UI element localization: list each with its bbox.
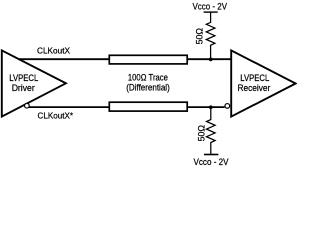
svg-text:LVPECL: LVPECL xyxy=(240,73,269,83)
svg-text:100Ω Trace: 100Ω Trace xyxy=(128,72,168,82)
svg-text:50Ω: 50Ω xyxy=(196,125,206,142)
inversion bubble on driver output xyxy=(25,103,30,108)
svg-text:Vcco - 2V: Vcco - 2V xyxy=(194,157,230,167)
transmission line T1 100 ohm trace (top box) xyxy=(109,55,187,64)
wire CLKoutX* (bottom) xyxy=(27,106,225,108)
svg-text:(Differential): (Differential) xyxy=(126,83,170,93)
op-amp U2 LVPECL Receiver triangle xyxy=(231,50,295,116)
svg-text:Vcco - 2V: Vcco - 2V xyxy=(193,1,228,11)
power terminal Vcco-2V (top) xyxy=(204,11,218,13)
svg-text:LVPECL: LVPECL xyxy=(9,73,38,83)
svg-text:CLKoutX*: CLKoutX* xyxy=(38,110,74,120)
transmission line T2 100 ohm trace (bottom box) xyxy=(109,102,187,111)
resistor R1 50 ohm (top) xyxy=(206,12,215,59)
wire CLKoutX (top) xyxy=(19,58,232,60)
inversion bubble on receiver input xyxy=(225,104,230,109)
svg-text:50Ω: 50Ω xyxy=(195,28,205,45)
junction node bottom xyxy=(209,105,213,109)
resistor R2 50 ohm (bottom) xyxy=(207,107,216,155)
junction node top xyxy=(209,58,213,62)
svg-text:Receiver: Receiver xyxy=(237,83,270,93)
op-amp U1 LVPECL Driver triangle xyxy=(2,50,66,116)
svg-text:CLKoutX: CLKoutX xyxy=(37,45,70,55)
svg-text:Driver: Driver xyxy=(12,83,35,93)
power terminal Vcco-2V (bottom) xyxy=(204,154,218,156)
